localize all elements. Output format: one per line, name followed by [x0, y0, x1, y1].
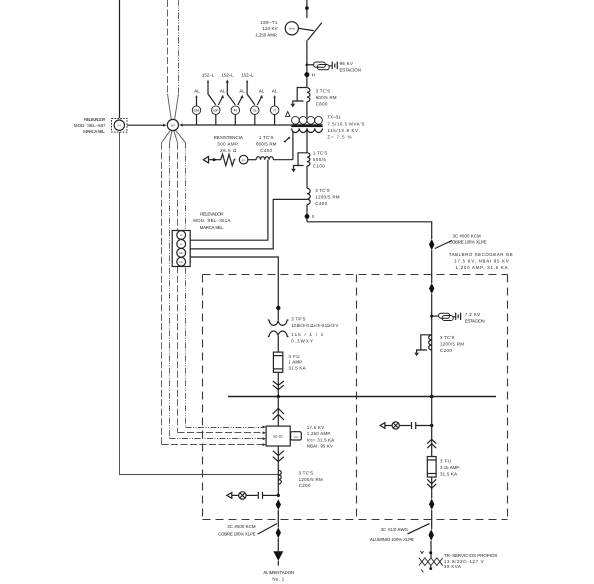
AL arrows — [195, 95, 275, 106]
svg-text:TR–SERVICIOS PROPIOS: TR–SERVICIOS PROPIOS — [444, 553, 497, 558]
node H — [304, 72, 309, 77]
cable diamond marker — [429, 499, 434, 510]
wire below fuse — [431, 477, 433, 499]
svg-text:C400: C400 — [315, 201, 327, 206]
svg-text:TABLERO SECOGEAR GE: TABLERO SECOGEAR GE — [449, 252, 513, 257]
svg-text:C200: C200 — [440, 348, 452, 353]
wire down — [431, 294, 433, 397]
relay circles row 63B 63P 49 26 71 — [192, 106, 279, 115]
device KC circle — [239, 155, 248, 164]
cable diamond marker — [429, 529, 434, 540]
svg-text:ALIMENTADOR: ALIMENTADOR — [263, 570, 294, 575]
svg-text:Z= 7.5 %: Z= 7.5 % — [327, 134, 351, 139]
leader 3C 500 KCM bottom left — [258, 524, 277, 535]
svg-text:3C #1/0 AWG: 3C #1/0 AWG — [381, 527, 409, 532]
svg-text:96 KV: 96 KV — [340, 61, 353, 66]
svg-text:3C #500 KCM: 3C #500 KCM — [453, 233, 482, 238]
wire: below switch down to node H — [306, 40, 308, 87]
svg-text:17.5 KV: 17.5 KV — [307, 425, 324, 430]
svg-text:300 AMP.: 300 AMP. — [217, 141, 239, 146]
CT 1 TC'S 500/5 C100 — [291, 153, 310, 173]
svg-text:26: 26 — [253, 108, 257, 112]
wire: H down to transformer — [306, 102, 308, 118]
svg-text:152–L: 152–L — [221, 72, 234, 77]
drawout chevron (down) below breaker — [273, 451, 284, 462]
surge arrester feeder (arrow, circle-X, gap) — [227, 492, 278, 499]
fuse 3 FU 3.15 AMP — [427, 457, 436, 478]
relay SEL-351A box with 50 51 50N 51N — [172, 231, 190, 267]
wire: bus to breaker — [277, 397, 279, 427]
svg-text:VAC: VAC — [294, 436, 299, 439]
svg-text:ESTACION: ESTACION — [465, 319, 485, 324]
dash-dot control bundle below 567 — [162, 130, 264, 444]
svg-text:1,250 AMP.: 1,250 AMP. — [255, 32, 277, 37]
svg-text:ESTACION: ESTACION — [340, 67, 361, 72]
svg-text:AL: AL — [259, 88, 265, 93]
transformer TX-01 core bar — [291, 124, 322, 127]
wire: down to node X — [306, 205, 308, 222]
drawout chevron (down) above bus — [273, 381, 284, 390]
wire: incoming 115 kV line top — [306, 0, 308, 18]
svg-text:13.8/220–127 V: 13.8/220–127 V — [444, 559, 484, 564]
svg-text:3 TP'S: 3 TP'S — [291, 317, 305, 322]
wire: branch to 96 kV arrester — [307, 64, 314, 66]
svg-text:26.5 Ω: 26.5 Ω — [220, 148, 237, 153]
delta winding symbol — [286, 111, 291, 116]
wire bus to fuse — [431, 397, 433, 457]
svg-text:52–01: 52–01 — [273, 434, 283, 438]
cable diamond marker — [429, 239, 434, 250]
transformer TX-01 secondary winding scallops — [292, 128, 323, 132]
svg-text:H: H — [312, 72, 315, 77]
wire: X to right cubicle — [307, 222, 432, 239]
svg-text:123 KV: 123 KV — [262, 26, 277, 31]
cable diamond marker — [276, 528, 281, 539]
svg-text:3 TC'S: 3 TC'S — [299, 471, 313, 476]
svg-text:115/13.8 KV: 115/13.8 KV — [327, 128, 358, 133]
svg-text:C800: C800 — [316, 101, 328, 106]
svg-text:587: 587 — [171, 124, 176, 127]
svg-text:C400: C400 — [260, 148, 272, 153]
svg-text:49: 49 — [234, 108, 238, 112]
CT 3 TC'S 1200/5 RM C200 feeder — [278, 470, 281, 484]
svg-text:TX–01: TX–01 — [327, 114, 341, 119]
grounding resistor chain: ground arrow — [203, 157, 217, 163]
svg-text:600/5 RM: 600/5 RM — [316, 95, 337, 100]
svg-text:1,250 AMP.: 1,250 AMP. — [307, 431, 331, 436]
surge arrester 7.2 KV — [432, 313, 461, 321]
svg-text:152–L: 152–L — [202, 72, 215, 77]
dashed switchgear enclosure — [203, 275, 508, 520]
svg-text:13.8/√3–0.11/√3–0.11/√3 V: 13.8/√3–0.11/√3–0.11/√3 V — [291, 323, 338, 328]
svg-text:RESISTENCIA: RESISTENCIA — [214, 135, 243, 140]
wire: fuse to bus with drawout chevrons — [277, 372, 279, 396]
wire: PT to fuse — [277, 336, 279, 352]
node: below-bus arrester tap right — [430, 424, 433, 427]
wire: vertical through 87T relay — [119, 0, 121, 118]
drawout chevron (up) below bus — [273, 408, 284, 420]
resistor RESISTENCIA 300 AMP 26.5 ohm — [218, 154, 236, 165]
wire: secondary neutral leg — [292, 131, 294, 160]
svg-text:KC: KC — [242, 159, 246, 162]
svg-text:87T: 87T — [117, 124, 122, 127]
svg-text:63P: 63P — [213, 108, 219, 112]
leader 3C 1/0 AWG — [408, 524, 430, 534]
svg-text:1200/5 RM: 1200/5 RM — [315, 194, 340, 199]
svg-text:RELEVADOR: RELEVADOR — [200, 212, 223, 217]
cable diamond marker — [276, 499, 281, 509]
wire: 87T to 567 circle and on to transformer — [127, 124, 164, 126]
wire through box edge — [431, 510, 433, 529]
svg-text:AL: AL — [220, 88, 226, 93]
arrowheads into 52-01 — [263, 426, 266, 446]
svg-text:30 KVA: 30 KVA — [444, 564, 461, 569]
circuit breaker 52-01 — [266, 426, 290, 446]
drawout chevron (up) above fuse — [427, 439, 436, 448]
disconnect switch 189-T1 blade — [308, 23, 322, 41]
wire to transformer — [430, 541, 432, 558]
wire: chain to neutral leg — [248, 159, 256, 161]
wire to feeder arrow — [277, 538, 279, 552]
svg-text:1 TC'S: 1 TC'S — [313, 150, 327, 155]
svg-text:1,200 AMP, 31.5 KA: 1,200 AMP, 31.5 KA — [455, 265, 507, 270]
svg-text:C200: C200 — [299, 483, 311, 488]
VAC box — [291, 432, 302, 440]
tap changer arrow — [284, 137, 290, 143]
152-L arrows — [207, 79, 255, 104]
svg-text:51N: 51N — [179, 261, 184, 264]
svg-text:MOD. SEL–351A: MOD. SEL–351A — [193, 218, 230, 223]
wire: CT C400 secondary to relays — [190, 199, 307, 249]
svg-text:COBRE 100% XLPE: COBRE 100% XLPE — [218, 532, 255, 537]
drawout chevron (down) below fuse — [427, 479, 436, 488]
svg-text:7.2 KV: 7.2 KV — [465, 312, 481, 317]
wire: CT C400 neutral secondary to relays — [190, 160, 268, 241]
svg-text:1 AMP.: 1 AMP. — [288, 360, 303, 365]
svg-text:1200/5 RM: 1200/5 RM — [299, 477, 323, 482]
svg-text:1 TC'S: 1 TC'S — [259, 135, 273, 140]
leader 3C 500 KCM — [435, 241, 452, 249]
surge arrester right cubicle — [380, 422, 432, 429]
svg-text:Icc= 31.5 KA: Icc= 31.5 KA — [307, 437, 334, 442]
svg-text:3 TC'S: 3 TC'S — [440, 335, 454, 340]
svg-text:31.5 KA: 31.5 KA — [440, 471, 457, 476]
svg-text:189–T1: 189–T1 — [260, 20, 278, 25]
svg-text:RELEVADOR: RELEVADOR — [84, 117, 106, 122]
svg-text:C100: C100 — [313, 163, 325, 168]
svg-text:AL: AL — [239, 88, 245, 93]
potential transformers 3 TP'S — [268, 320, 288, 337]
svg-text:71: 71 — [273, 108, 277, 112]
wire: 87T relay down left side to breaker CT — [120, 132, 279, 474]
CT 1 TC'S 600/5 RM C400 on neutral — [256, 157, 273, 160]
svg-text:MARCA SEL.: MARCA SEL. — [200, 225, 224, 230]
svg-text:No. 1: No. 1 — [272, 577, 284, 582]
cable diamond marker — [429, 283, 434, 294]
svg-text:500/5: 500/5 — [313, 157, 326, 162]
fuse 3 FU 1 AMP — [273, 352, 282, 372]
CT 3 TC'S 600/5 RM C800 — [290, 88, 310, 108]
svg-text:7.5/10.5 MVA'S: 7.5/10.5 MVA'S — [327, 121, 364, 126]
wire: secondary main leg — [306, 129, 308, 153]
svg-text:0.3WXY: 0.3WXY — [291, 338, 313, 343]
svg-text:152–L: 152–L — [241, 72, 254, 77]
svg-text:ALUMINIO 100% XLPE: ALUMINIO 100% XLPE — [370, 537, 414, 542]
node: arrester tap — [306, 64, 309, 67]
svg-text:AL: AL — [272, 88, 278, 93]
node: junction on incoming line — [305, 6, 309, 10]
relay node circle 587 — [167, 119, 178, 130]
wire: MAN link to blade — [298, 28, 313, 30]
svg-text:MOD. SEL–587: MOD. SEL–587 — [74, 123, 106, 128]
transformer TX-01 primary winding loops — [292, 116, 323, 124]
feeder arrow ALIMENTADOR — [273, 551, 283, 561]
svg-text:600/5 RM: 600/5 RM — [256, 141, 277, 146]
wire: node to PT — [277, 308, 279, 321]
svg-text:3 TC'S: 3 TC'S — [315, 188, 329, 193]
svg-text:X: X — [312, 214, 315, 219]
svg-text:NBAI: 95 KV: NBAI: 95 KV — [307, 444, 333, 449]
node below transformer — [429, 567, 432, 570]
svg-text:COBRE 100% XLPE: COBRE 100% XLPE — [449, 240, 486, 245]
motor operator MAN circle — [285, 22, 298, 35]
wire: breaker down — [277, 446, 279, 495]
svg-text:MARCA SEL.: MARCA SEL. — [83, 129, 105, 134]
svg-text:3 FU: 3 FU — [288, 354, 299, 359]
svg-text:3 TC'S: 3 TC'S — [316, 88, 330, 93]
svg-text:3 FU: 3 FU — [440, 459, 451, 464]
node: feeder arrester tap — [277, 494, 280, 497]
node X — [305, 214, 310, 219]
CT 3 TC'S 1200/5 RM C400 — [307, 188, 310, 204]
dash-dot control bundle above 567 — [168, 0, 179, 120]
svg-text:17.5 KV, NBAI 95 KV: 17.5 KV, NBAI 95 KV — [454, 258, 509, 263]
CT 3 TC'S 1200/5 RM C200 incoming — [414, 335, 431, 356]
node: PT tap junction — [276, 306, 280, 310]
differential relay 87T — [112, 118, 128, 132]
stubs from relay circles to wire — [197, 115, 275, 125]
svg-text:115 / 1 / 1: 115 / 1 / 1 — [291, 332, 324, 337]
svg-text:50N: 50N — [179, 252, 184, 255]
transformer TR-SERVICIOS PROPIOS zigzag — [419, 551, 443, 572]
svg-text:AL: AL — [194, 88, 200, 93]
main bus — [228, 396, 496, 398]
node: arrester 7.2kV tap — [430, 315, 433, 318]
wire down — [431, 250, 433, 283]
node on resistor chain — [213, 158, 216, 161]
node — [429, 551, 432, 554]
wire through box edge — [277, 510, 279, 528]
wire: down to CT C400 — [306, 166, 308, 188]
svg-text:63B: 63B — [194, 108, 200, 112]
svg-text:MAN: MAN — [289, 28, 295, 31]
svg-text:3.15 AMP.: 3.15 AMP. — [440, 465, 460, 470]
surge arrester 96 kV symbol — [314, 62, 338, 70]
svg-text:3C #500 KCM: 3C #500 KCM — [227, 524, 256, 529]
svg-text:1200/5 RM: 1200/5 RM — [440, 341, 464, 346]
svg-text:31.5 KA: 31.5 KA — [288, 365, 305, 370]
wire: 50N row to PT tap — [190, 257, 278, 308]
